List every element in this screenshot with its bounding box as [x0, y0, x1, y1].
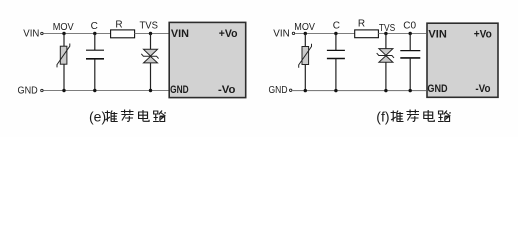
wire TVS bottom lead (right)	[385, 62, 387, 90]
wire top-left segment (VIN terminal to resistor R)	[44, 33, 111, 35]
diode TVS center bar with wings (right)	[377, 53, 394, 58]
diode TVS center bar with wings (left)	[141, 54, 158, 59]
junction C top	[93, 32, 96, 35]
svg-text:GND: GND	[269, 85, 288, 96]
junction C bottom	[93, 89, 96, 92]
svg-text:VIN: VIN	[171, 28, 189, 40]
svg-text:(f): (f)	[376, 109, 389, 125]
terminal VIN (right)	[292, 32, 294, 34]
capacitor C bottom plate (right)	[327, 58, 345, 60]
wire MOV bottom lead (right)	[304, 65, 306, 91]
svg-text:C: C	[333, 21, 340, 32]
power module U1 (left)	[169, 22, 246, 97]
svg-text:C0: C0	[403, 20, 416, 31]
resistor R body (right)	[355, 30, 379, 38]
wire top segment (R to module, right)	[378, 33, 426, 35]
terminal GND (right)	[290, 89, 292, 91]
capacitor C0 top plate	[400, 50, 420, 52]
svg-text:C: C	[91, 21, 98, 32]
junction C bottom (right)	[334, 89, 337, 92]
svg-text:(e): (e)	[89, 109, 106, 125]
capacitor C bottom plate (left)	[86, 58, 104, 60]
wire C top lead	[94, 34, 96, 51]
svg-text:VIN: VIN	[428, 28, 446, 40]
resistor R body (left)	[111, 30, 135, 38]
varistor MOV diagonal stroke (right)	[299, 44, 312, 68]
svg-text:MOV: MOV	[294, 22, 315, 33]
svg-text:TVS: TVS	[379, 23, 396, 34]
junction TVS bottom	[149, 89, 152, 92]
wire C0 top lead	[409, 34, 411, 51]
wire TVS top lead (right)	[385, 34, 387, 49]
wire TVS top lead	[150, 34, 152, 50]
terminal VIN (left)	[41, 32, 43, 34]
caption 路 glyph (f)	[438, 111, 451, 122]
svg-text:R: R	[358, 19, 365, 30]
caption 路 glyph (e)	[153, 111, 166, 122]
wire TVS bottom lead	[150, 63, 152, 91]
wire MOV top lead	[63, 34, 65, 47]
varistor MOV body (right)	[302, 47, 309, 65]
junction MOV bottom (right)	[304, 89, 307, 92]
svg-text:-Vo: -Vo	[218, 84, 236, 96]
terminal GND (left)	[41, 89, 43, 91]
wire C bottom lead	[94, 59, 96, 91]
diode TVS lower triangle (left)	[144, 56, 158, 63]
wire bottom rail (right)	[292, 90, 426, 92]
junction C top (right)	[334, 32, 337, 35]
wire MOV bottom lead	[63, 64, 65, 90]
wire top segment (VIN terminal to resistor R, right)	[295, 33, 355, 35]
svg-text:MOV: MOV	[53, 22, 74, 33]
junction TVS top (right)	[384, 32, 387, 35]
wire C0 bottom lead	[409, 58, 411, 91]
svg-text:+Vo: +Vo	[474, 28, 492, 40]
caption 荐 glyph (f)	[406, 110, 419, 122]
svg-text:R: R	[115, 19, 122, 30]
junction TVS bottom (right)	[384, 89, 387, 92]
junction TVS top	[149, 32, 152, 35]
svg-text:VIN: VIN	[273, 29, 290, 40]
caption 电 glyph (f)	[424, 110, 435, 121]
junction MOV top	[62, 32, 65, 35]
svg-text:GND: GND	[170, 84, 189, 96]
varistor MOV body (left)	[60, 46, 67, 64]
capacitor C top plate (left)	[86, 49, 104, 51]
caption 电 glyph (e)	[139, 110, 150, 121]
wire C bottom lead (right)	[335, 59, 337, 91]
svg-text:GND: GND	[427, 83, 447, 95]
wire top segment (R to module)	[135, 33, 170, 35]
caption 推 glyph (e)	[105, 111, 118, 122]
wire C top lead (right)	[335, 34, 337, 51]
caption 推 glyph (f)	[391, 111, 404, 122]
junction MOV bottom	[62, 89, 65, 92]
varistor MOV diagonal stroke (left)	[57, 44, 70, 68]
capacitor C top plate (right)	[327, 49, 345, 51]
junction MOV top (right)	[304, 32, 307, 35]
svg-text:GND: GND	[18, 85, 38, 96]
diode TVS upper triangle (right)	[379, 49, 393, 56]
junction C0 bottom	[409, 89, 412, 92]
diode TVS upper triangle (left)	[144, 49, 158, 56]
svg-text:TVS: TVS	[140, 20, 159, 31]
caption 荐 glyph (e)	[121, 110, 134, 122]
wire bottom rail (left)	[44, 90, 170, 92]
power module U2 (right)	[427, 23, 498, 97]
junction C0 top	[409, 32, 412, 35]
diode TVS lower triangle (right)	[379, 56, 393, 63]
svg-text:-Vo: -Vo	[475, 83, 490, 95]
svg-text:+Vo: +Vo	[219, 28, 238, 40]
wire MOV top lead (right)	[304, 34, 306, 47]
capacitor C0 bottom plate	[400, 57, 420, 59]
svg-text:VIN: VIN	[23, 29, 39, 40]
